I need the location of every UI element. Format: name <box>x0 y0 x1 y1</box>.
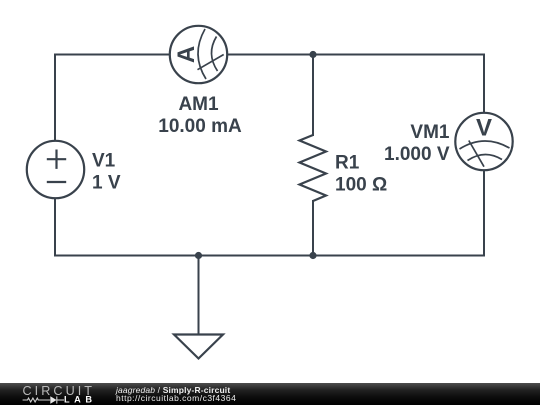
wire: resistor branch top <box>312 55 314 136</box>
svg-text:AM1: AM1 <box>178 94 219 115</box>
svg-text:V1: V1 <box>92 151 116 172</box>
wire: top rail <box>55 54 484 56</box>
svg-text:R1: R1 <box>335 153 360 174</box>
svg-text:CIRCUIT: CIRCUIT <box>23 384 93 398</box>
svg-text:V: V <box>476 115 492 142</box>
node: bottom junction of R1 branch <box>309 252 316 259</box>
CircuitLab logo <box>0 383 110 405</box>
wire: bottom rail <box>55 255 484 257</box>
node: ground junction <box>195 252 202 259</box>
wire: left rail <box>54 55 56 256</box>
footer credit text <box>116 386 236 404</box>
wire: resistor branch bottom <box>312 201 314 256</box>
svg-text:100 Ω: 100 Ω <box>335 175 387 196</box>
node: top junction of R1 branch <box>309 51 316 58</box>
ground <box>174 335 223 359</box>
ammeter AM1 <box>170 26 227 83</box>
svg-text:1.000 V: 1.000 V <box>384 144 450 165</box>
svg-text:A: A <box>173 46 200 63</box>
svg-text:10.00 mA: 10.00 mA <box>158 116 242 137</box>
footer bar <box>0 383 540 405</box>
voltage source V1 <box>27 141 84 198</box>
wire: ground stem <box>198 256 200 335</box>
resistor R1 <box>300 135 327 201</box>
svg-text:1 V: 1 V <box>92 173 121 194</box>
svg-text:LAB: LAB <box>64 395 92 405</box>
svg-text:VM1: VM1 <box>410 122 450 143</box>
voltmeter VM1 <box>455 113 512 170</box>
wire: right rail <box>483 55 485 256</box>
